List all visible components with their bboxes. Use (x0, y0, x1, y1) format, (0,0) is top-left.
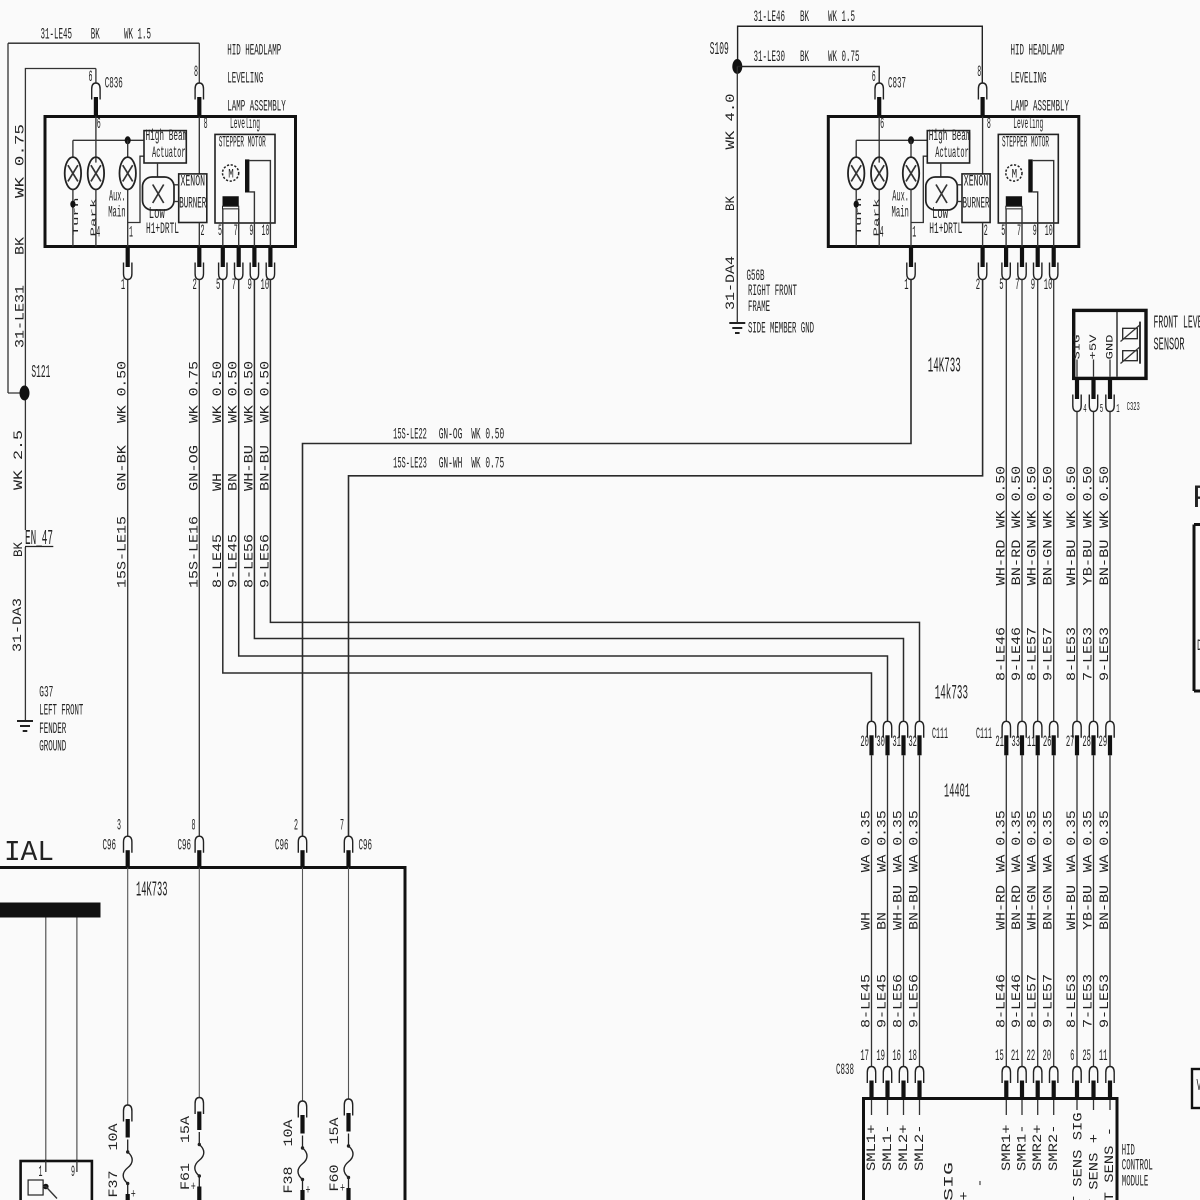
svg-text:WH-GN: WH-GN (1025, 540, 1040, 586)
front level sensor box (1074, 310, 1146, 378)
svg-text:2: 2 (984, 222, 988, 240)
svg-text:WK 0.50: WK 0.50 (993, 466, 1008, 528)
svg-text:WK 2.5: WK 2.5 (11, 430, 26, 490)
svg-text:8: 8 (204, 115, 208, 133)
wire 9-LE45 left pin 7 to C111 pin 30 (239, 280, 888, 722)
svg-text:6: 6 (1070, 1047, 1074, 1065)
svg-text:C96: C96 (275, 837, 289, 855)
wire 8-LE45 C111 to module pin 17 (871, 755, 873, 1066)
svg-text:WA 0.35: WA 0.35 (875, 810, 890, 872)
svg-text:9-LE46: 9-LE46 (1009, 627, 1024, 681)
partial V box right edge (1192, 1069, 1200, 1108)
aux main lamp (left) (108, 140, 136, 246)
svg-text:9: 9 (248, 276, 252, 294)
svg-text:S121: S121 (31, 363, 50, 383)
pin 6 wire inside box (right) (878, 117, 880, 163)
connector C838 pin 25 (1091, 1081, 1095, 1099)
svg-text:10: 10 (1044, 276, 1053, 294)
wire 9-LE56 C111 to module pin 18 (919, 755, 921, 1066)
svg-text:WK 0.50: WK 0.50 (241, 361, 256, 423)
svg-text:WK 0.50: WK 0.50 (1097, 466, 1112, 528)
svg-text:GN-BK: GN-BK (115, 445, 130, 491)
bottom connector pin 7 (left) (237, 248, 241, 267)
level sensor strain gauge icon (1121, 322, 1141, 364)
svg-text:M: M (228, 167, 234, 182)
high beam actuator (right) (927, 127, 970, 177)
fuse F38 10A feed wire (302, 868, 304, 1102)
svg-text:7: 7 (340, 817, 344, 835)
svg-text:BK: BK (800, 48, 809, 66)
svg-text:G37: G37 (39, 684, 53, 702)
svg-text:3: 3 (117, 817, 121, 835)
wire bus to relay pin 1 (45, 918, 47, 1162)
connector C111 pin 20 (869, 735, 873, 755)
svg-text:WH: WH (859, 912, 874, 930)
svg-text:WH-BU: WH-BU (1064, 885, 1079, 930)
wire 31-LE45 feed to left headlamp (8, 42, 199, 44)
svg-text:SMR1+: SMR1+ (999, 1124, 1014, 1171)
svg-text:SML1+: SML1+ (864, 1124, 879, 1171)
svg-text:2: 2 (201, 222, 205, 240)
module pin label HGT SENS SIG (1076, 1100, 1078, 1110)
svg-text:C838: C838 (836, 1061, 854, 1079)
module pin label SML2- (919, 1100, 921, 1115)
connector C838 pin 20 (1052, 1081, 1056, 1099)
svg-text:GN-WH: GN-WH (439, 455, 463, 473)
svg-text:XENON: XENON (181, 173, 206, 191)
svg-text:C111: C111 (932, 725, 948, 743)
fuse F37 10A feed wire (127, 868, 129, 1106)
svg-text:32: 32 (908, 733, 917, 751)
wire 9-LE57 C111 to module pin 20 (1053, 755, 1055, 1066)
svg-text:WK 0.50: WK 0.50 (226, 361, 241, 423)
svg-text:1: 1 (1116, 402, 1119, 416)
svg-text:WK 0.50: WK 0.50 (1064, 466, 1079, 528)
svg-text:+5V: +5V (1089, 335, 1100, 360)
svg-text:9-LE53: 9-LE53 (1097, 974, 1112, 1028)
svg-text:27: 27 (1066, 733, 1075, 751)
svg-text:IAL: IAL (4, 836, 54, 869)
connector C836 pin 8 (197, 97, 201, 117)
svg-text:31-LE30: 31-LE30 (754, 48, 786, 66)
wire 8-LE56 left pin 9 to C111 pin 31 (254, 280, 903, 722)
svg-text:5: 5 (999, 276, 1003, 294)
svg-text:BK: BK (91, 26, 100, 44)
svg-text:WA 0.35: WA 0.35 (993, 810, 1008, 872)
turn lamp (left) (65, 140, 81, 246)
svg-text:15: 15 (995, 1047, 1004, 1065)
svg-text:F38: F38 (281, 1167, 296, 1194)
svg-text:8: 8 (194, 63, 198, 81)
pin 6 wire inside box (left) (95, 117, 97, 163)
splice S121 (8, 392, 25, 394)
wire 15S-LE23 from right pin 2 to C96 pin 7 (349, 280, 983, 837)
wire 7-LE53 sensor +5V to C111 pin 28 (1093, 412, 1095, 722)
svg-text:WA 0.35: WA 0.35 (1009, 810, 1024, 872)
high beam actuator (left) (144, 127, 187, 177)
svg-text:YB-BU: YB-BU (1081, 885, 1096, 930)
svg-text:Main: Main (108, 204, 125, 222)
svg-text:15S-LE23: 15S-LE23 (393, 455, 427, 473)
svg-text:V: V (1197, 1077, 1200, 1096)
wire 9-LE53 C111 to module pin 11 (1109, 755, 1111, 1066)
svg-text:-: - (973, 1179, 988, 1188)
svg-text:WK 0.50: WK 0.50 (115, 361, 130, 423)
turn lamp (right) (848, 140, 864, 246)
svg-text:1: 1 (121, 276, 125, 294)
relay internals (partial) (28, 1180, 43, 1195)
svg-text:31-LE31: 31-LE31 (13, 285, 28, 348)
fuse F37 10A (126, 1119, 130, 1138)
svg-text:C96: C96 (359, 837, 373, 855)
svg-text:WH: WH (210, 473, 225, 491)
svg-text:1: 1 (904, 276, 908, 294)
wire 31-DA4 to ground (736, 67, 738, 323)
svg-text:8-LE46: 8-LE46 (993, 974, 1008, 1028)
stepper motor M (left) (223, 165, 239, 182)
module pin label SML1- (887, 1100, 889, 1115)
wire 15S-LE16 left pin 2 to C96 pin 8 (198, 280, 200, 837)
svg-text:7: 7 (232, 276, 236, 294)
svg-text:4: 4 (880, 223, 884, 241)
svg-text:31-DA4: 31-DA4 (723, 256, 738, 310)
svg-text:BK: BK (11, 542, 26, 557)
svg-text:WH-BU: WH-BU (891, 885, 906, 930)
svg-text:5: 5 (216, 276, 220, 294)
svg-text:XENON: XENON (964, 173, 989, 191)
bottom connector pin 10 (left) (268, 248, 272, 267)
svg-text:8-LE57: 8-LE57 (1025, 627, 1040, 681)
svg-text:BURNER: BURNER (963, 195, 990, 213)
aux main lamp (right) (892, 140, 920, 246)
connector C111 pin 28 (1091, 735, 1095, 755)
bottom connector pin 9 (right) (1036, 248, 1040, 267)
svg-text:WH-GN: WH-GN (1025, 885, 1040, 930)
module pin label SMR2- (1053, 1100, 1055, 1115)
connector C838 pin 18 (917, 1081, 921, 1099)
svg-text:LEFT FRONT: LEFT FRONT (39, 702, 83, 720)
svg-text:2: 2 (976, 276, 980, 294)
svg-text:10: 10 (262, 222, 270, 240)
svg-text:8: 8 (192, 817, 196, 835)
svg-text:22: 22 (1027, 1047, 1036, 1065)
svg-text:8-LE45: 8-LE45 (210, 534, 225, 588)
wire 8-LE46 C111 to module pin 15 (1005, 755, 1007, 1066)
svg-text:20: 20 (860, 733, 869, 751)
fuse F61 15A feed wire (198, 868, 200, 1098)
fuse F60 15A feed wire (348, 868, 350, 1100)
svg-text:14401: 14401 (944, 781, 970, 803)
wire 8-LE53 sensor SIG to C111 pin 27 (1076, 412, 1078, 722)
svg-text:WA 0.35: WA 0.35 (1025, 810, 1040, 872)
svg-text:WA 0.35: WA 0.35 (1064, 810, 1079, 872)
bottom connector pin 2 (right) (980, 248, 984, 267)
svg-text:8: 8 (987, 115, 991, 133)
connector C111 pin 30 (885, 735, 889, 755)
svg-text:MODULE: MODULE (1122, 1173, 1149, 1191)
relay box (partial) (21, 1161, 92, 1200)
svg-text:SIG: SIG (1073, 335, 1084, 360)
wire 15S-LE15 left pin 1 to C96 pin 3 (127, 280, 129, 837)
svg-text:29: 29 (1099, 733, 1108, 751)
svg-text:HID HEADLAMP: HID HEADLAMP (1011, 42, 1065, 60)
svg-text:30: 30 (876, 733, 885, 751)
svg-text:8-LE57: 8-LE57 (1025, 974, 1040, 1028)
connector C111 pin 33 (1020, 735, 1024, 755)
svg-text:21: 21 (995, 733, 1004, 751)
lamp bus wire (left) (73, 139, 144, 141)
svg-text:SIG: SIG (942, 1162, 957, 1200)
svg-text:20: 20 (1043, 1047, 1052, 1065)
connector C838 pin 6 (1075, 1081, 1079, 1099)
svg-text:SMR2+: SMR2+ (1030, 1124, 1045, 1171)
svg-text:7-LE53: 7-LE53 (1081, 974, 1096, 1028)
fuse box (partial) (0, 868, 405, 1200)
svg-text:9-LE56: 9-LE56 (907, 974, 922, 1028)
svg-text:2: 2 (294, 817, 298, 835)
svg-text:BN-GN: BN-GN (1041, 885, 1056, 930)
svg-text:31-DA3: 31-DA3 (10, 598, 25, 652)
svg-text:+: + (131, 1187, 136, 1200)
svg-text:H1+DRTL: H1+DRTL (146, 220, 179, 238)
svg-text:WA 0.35: WA 0.35 (1081, 810, 1096, 872)
lamp bus wire (right) (856, 139, 927, 141)
module pin label SML2+ (903, 1100, 905, 1115)
svg-text:18: 18 (908, 1047, 917, 1065)
svg-text:BN-BU: BN-BU (257, 445, 272, 491)
svg-text:8-LE53: 8-LE53 (1064, 627, 1079, 681)
module pin label SMR2+ (1037, 1100, 1039, 1115)
svg-text:26: 26 (1043, 733, 1052, 751)
module pin label SML1+ (871, 1100, 873, 1115)
svg-text:F60: F60 (327, 1165, 342, 1192)
wire 8-LE57 C111 to module pin 22 (1037, 755, 1039, 1066)
connector C838 pin 19 (885, 1081, 889, 1099)
junction dot above Aux lamp (right) (908, 136, 914, 144)
svg-text:4: 4 (1083, 402, 1086, 416)
svg-text:9-LE53: 9-LE53 (1097, 627, 1112, 681)
svg-text:F37: F37 (106, 1171, 121, 1198)
bottom connector pin 1 (left) (126, 248, 130, 267)
xenon burner (left) (174, 173, 207, 247)
svg-text:BURNER: BURNER (179, 195, 206, 213)
svg-text:8-LE53: 8-LE53 (1064, 974, 1079, 1028)
svg-text:Leveling: Leveling (1013, 115, 1043, 133)
wire 31-LE30 to right headlamp pin 6 (737, 67, 879, 84)
svg-text:BN: BN (226, 473, 241, 491)
svg-text:15S-LE15: 15S-LE15 (115, 516, 130, 588)
svg-text:8-LE45: 8-LE45 (859, 974, 874, 1028)
svg-text:BN-RD: BN-RD (1009, 885, 1024, 930)
svg-text:HGT SENS SIG: HGT SENS SIG (1071, 1112, 1086, 1200)
svg-text:17: 17 (860, 1047, 869, 1065)
svg-text:9: 9 (71, 1163, 75, 1181)
svg-text:25: 25 (1082, 1047, 1091, 1065)
svg-text:STEPPER MOTOR: STEPPER MOTOR (1002, 134, 1049, 152)
svg-text:Main: Main (892, 204, 909, 222)
svg-text:10A: 10A (106, 1123, 121, 1150)
fuse F61 15A (197, 1112, 201, 1131)
svg-text:9-LE45: 9-LE45 (875, 974, 890, 1028)
svg-text:16: 16 (892, 1047, 901, 1065)
svg-text:High Beam: High Beam (929, 127, 971, 145)
connector C96 pin 2 (300, 850, 304, 867)
connector C111 pin 26 (1052, 735, 1056, 755)
fuse F38 10A (300, 1115, 304, 1134)
wire 15S-LE22 from right pin 1 to C96 pin 2 (303, 280, 912, 837)
wire 9-LE46 right pin 7 to C111 pin 33 (1021, 280, 1023, 722)
svg-text:9-LE45: 9-LE45 (226, 534, 241, 588)
svg-text:11: 11 (1027, 733, 1036, 751)
svg-text:BN-RD: BN-RD (1009, 539, 1024, 585)
svg-text:15S-LE16: 15S-LE16 (186, 516, 201, 588)
connector C111 pin 21 (1004, 735, 1008, 755)
connector C111 pin 31 (901, 735, 905, 755)
svg-text:WA 0.35: WA 0.35 (1041, 810, 1056, 872)
wire aux lamp to actuator (right) (911, 156, 927, 222)
svg-text:WK 0.75: WK 0.75 (13, 124, 28, 198)
svg-text:LEVELING: LEVELING (1011, 70, 1047, 88)
svg-text:WK 0.75: WK 0.75 (471, 455, 504, 473)
bottom connector pin 5 (right) (1004, 248, 1008, 267)
wire aux lamp to actuator (left) (128, 156, 144, 222)
svg-text:LEVELING: LEVELING (227, 70, 263, 88)
svg-text:+: + (306, 1183, 311, 1198)
svg-text:SML1-: SML1- (880, 1125, 895, 1172)
svg-text:C837: C837 (888, 75, 906, 93)
wire 9-LE57 right pin 10 to C111 pin 26 (1053, 280, 1055, 722)
connector C838 pin 15 (1004, 1081, 1008, 1099)
connector C323 pin 1 (1108, 380, 1112, 399)
ground G56B right front frame side member (729, 322, 745, 324)
svg-text:WA 0.35: WA 0.35 (891, 810, 906, 872)
svg-text:WK 0.75: WK 0.75 (186, 361, 201, 423)
svg-text:5: 5 (1001, 222, 1005, 240)
svg-text:S109: S109 (710, 40, 729, 60)
svg-text:STEPPER MOTOR: STEPPER MOTOR (219, 134, 266, 152)
svg-text:LAMP ASSEMBLY: LAMP ASSEMBLY (1011, 98, 1070, 116)
wire 8-LE53 C111 to module pin 6 (1076, 755, 1078, 1066)
connector C838 pin 17 (869, 1081, 873, 1099)
partial box right edge (1194, 525, 1200, 692)
svg-text:14K733: 14K733 (136, 880, 168, 903)
svg-text:SML2-: SML2- (912, 1125, 927, 1172)
svg-text:WK 1.5: WK 1.5 (828, 8, 855, 26)
svg-text:C836: C836 (105, 75, 123, 93)
svg-text:GN-OG: GN-OG (439, 426, 463, 444)
svg-text:BN: BN (875, 912, 890, 930)
fuse F60 15A (346, 1113, 350, 1132)
svg-text:14k733: 14k733 (935, 683, 968, 706)
wire 9-LE45 C111 to module pin 19 (887, 755, 889, 1066)
park lamp (left) (88, 157, 104, 246)
svg-text:5: 5 (218, 222, 222, 240)
svg-text:9: 9 (249, 222, 253, 240)
wire 9-LE53 sensor GND to C111 pin 29 (1109, 412, 1111, 722)
svg-text:GROUND: GROUND (39, 738, 66, 756)
svg-text:WH-RD: WH-RD (993, 885, 1008, 930)
xenon low beam lamp (right) (926, 177, 963, 238)
svg-text:EN_47: EN_47 (25, 528, 53, 551)
svg-text:Actuator: Actuator (935, 144, 969, 162)
svg-text:31: 31 (892, 733, 901, 751)
svg-text:10A: 10A (281, 1119, 296, 1146)
pin 8 wire inside box (right) (982, 117, 984, 174)
svg-text:9: 9 (1031, 276, 1035, 294)
connector C323 pin 4 (1075, 380, 1079, 399)
HID headlamp leveling lamp assembly box (right) (828, 117, 1079, 247)
svg-text:1: 1 (912, 223, 916, 241)
svg-text:HGT SENS -: HGT SENS - (1102, 1127, 1117, 1200)
svg-text:SENSOR: SENSOR (1154, 336, 1185, 356)
svg-text:8: 8 (977, 63, 981, 81)
park lamp (right) (871, 157, 887, 246)
svg-text:15A: 15A (327, 1117, 342, 1144)
svg-text:2: 2 (193, 276, 197, 294)
svg-text:BN-BU: BN-BU (1097, 540, 1112, 586)
wire 31-LE46 feed to right headlamp (738, 26, 983, 83)
connector C323 pin 5 (1091, 380, 1095, 399)
svg-text:8-LE56: 8-LE56 (241, 534, 256, 588)
svg-text:HID HEADLAMP: HID HEADLAMP (227, 42, 281, 60)
svg-text:SIDE MEMBER GND: SIDE MEMBER GND (748, 320, 814, 338)
node EN_47 (24, 530, 55, 547)
svg-text:C323: C323 (1127, 400, 1140, 414)
svg-text:C96: C96 (178, 837, 192, 855)
svg-text:14K733: 14K733 (928, 356, 961, 379)
svg-text:FRONT LEVEL: FRONT LEVEL (1154, 314, 1200, 334)
leveling stepper motor box (right) (998, 115, 1058, 223)
svg-text:YB-BU: YB-BU (1081, 540, 1096, 586)
leveling stepper motor box (left) (215, 115, 275, 223)
svg-text:BK: BK (13, 237, 28, 255)
connector C836 pin 6 (94, 97, 98, 117)
svg-text:6: 6 (880, 115, 884, 133)
connector C838 pin 16 (901, 1081, 905, 1099)
svg-text:SML2+: SML2+ (896, 1124, 911, 1171)
svg-text:Actuator: Actuator (152, 144, 186, 162)
module pin label SMR1- (1021, 1100, 1023, 1115)
leveling adjuster bracket (right) (1028, 159, 1053, 246)
bottom connector pin 5 (left) (221, 248, 225, 267)
stepper coil bar (left) (223, 196, 239, 246)
svg-text:BN-GN: BN-GN (1041, 540, 1056, 586)
svg-text:+: + (957, 1191, 972, 1200)
svg-text:BN-BU: BN-BU (907, 885, 922, 930)
svg-text:1: 1 (39, 1163, 43, 1181)
stepper motor M (right) (1006, 165, 1022, 182)
svg-text:1: 1 (129, 223, 133, 241)
svg-text:F61: F61 (178, 1163, 193, 1190)
svg-text:7: 7 (234, 222, 238, 240)
junction dot above Aux lamp (left) (125, 136, 131, 144)
svg-text:WK 0.50: WK 0.50 (1081, 466, 1096, 528)
svg-text:C96: C96 (103, 837, 117, 855)
wire bus to relay pin 9 (76, 918, 78, 1162)
wire 9-LE56 left pin 10 to C111 pin 32 (270, 280, 919, 722)
svg-text:WH-BU: WH-BU (1064, 540, 1079, 586)
splice S109 (732, 59, 742, 74)
bottom connector pin 7 (right) (1020, 248, 1024, 267)
svg-text:WK 0.50: WK 0.50 (1041, 466, 1056, 528)
svg-text:WA 0.35: WA 0.35 (859, 810, 874, 872)
wire 8-LE46 right pin 5 to C111 pin 21 (1005, 280, 1007, 722)
connector C96 pin 3 (126, 850, 130, 867)
svg-text:WK 0.50: WK 0.50 (210, 361, 225, 423)
svg-text:C111: C111 (976, 725, 992, 743)
svg-text:15S-LE22: 15S-LE22 (393, 426, 427, 444)
svg-text:31-LE46: 31-LE46 (754, 8, 786, 26)
